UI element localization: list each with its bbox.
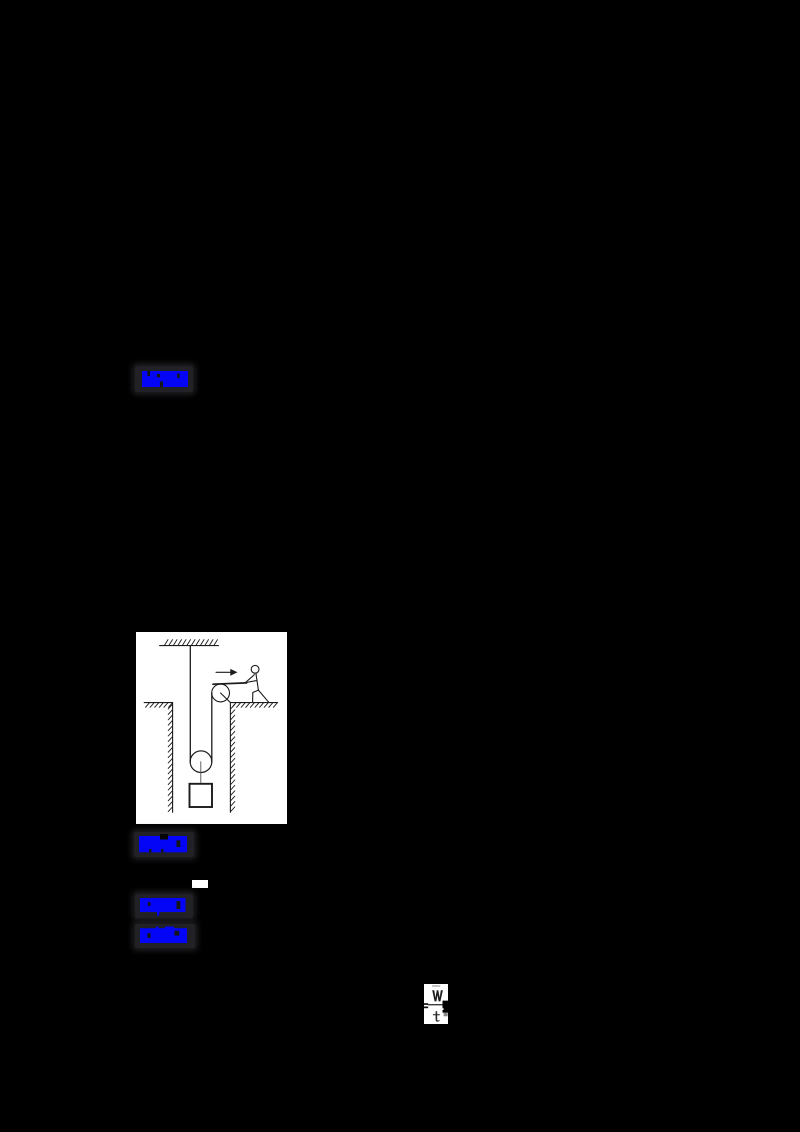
right glyph fragment (442, 1000, 447, 1012)
left ground line (144, 701, 172, 703)
numerator W (432, 990, 443, 1001)
label halo 2 (134, 832, 194, 857)
person torso (256, 673, 258, 690)
right ground line (230, 701, 277, 703)
ceiling line (159, 644, 218, 646)
person back leg (258, 690, 268, 702)
person front leg (252, 690, 258, 702)
person head (251, 665, 259, 673)
right ground hatching (232, 702, 277, 706)
diagram image (pulley well) (136, 632, 287, 824)
fixed pulley (212, 684, 230, 702)
rope from fixed pulley to person (213, 682, 247, 683)
label 【解析】 (138, 926, 190, 947)
fraction bar (428, 1004, 444, 1005)
person arm lower (246, 680, 257, 682)
label halo 4 (135, 924, 195, 948)
rope between pulleys (211, 693, 213, 762)
grey top mark (432, 985, 440, 987)
right wall (229, 702, 231, 812)
left wall hatching (168, 704, 172, 811)
rope from ceiling to movable pulley (189, 645, 191, 761)
label 【答案】 (138, 896, 190, 920)
ceiling hatching (164, 639, 217, 645)
denominator t (435, 1011, 439, 1021)
movable pulley (190, 750, 212, 772)
person arm upper (246, 674, 254, 682)
weight box G (189, 783, 211, 806)
pulley hook link (200, 761, 202, 783)
formula image P=W/t (424, 984, 448, 1024)
motion arrow (216, 671, 230, 673)
equals sign fragment (424, 1003, 428, 1005)
label halo 1 (135, 366, 193, 392)
label halo 3 (135, 894, 193, 918)
left ground hatching (145, 702, 172, 706)
grey fragment (443, 1012, 447, 1016)
left wall (171, 702, 173, 812)
label 【考点】 (138, 834, 190, 854)
inline formula image (blank white) (192, 880, 208, 889)
label 【题文】 (139, 369, 191, 389)
fixed pulley axle strut (220, 693, 230, 702)
right wall hatching (230, 704, 234, 811)
